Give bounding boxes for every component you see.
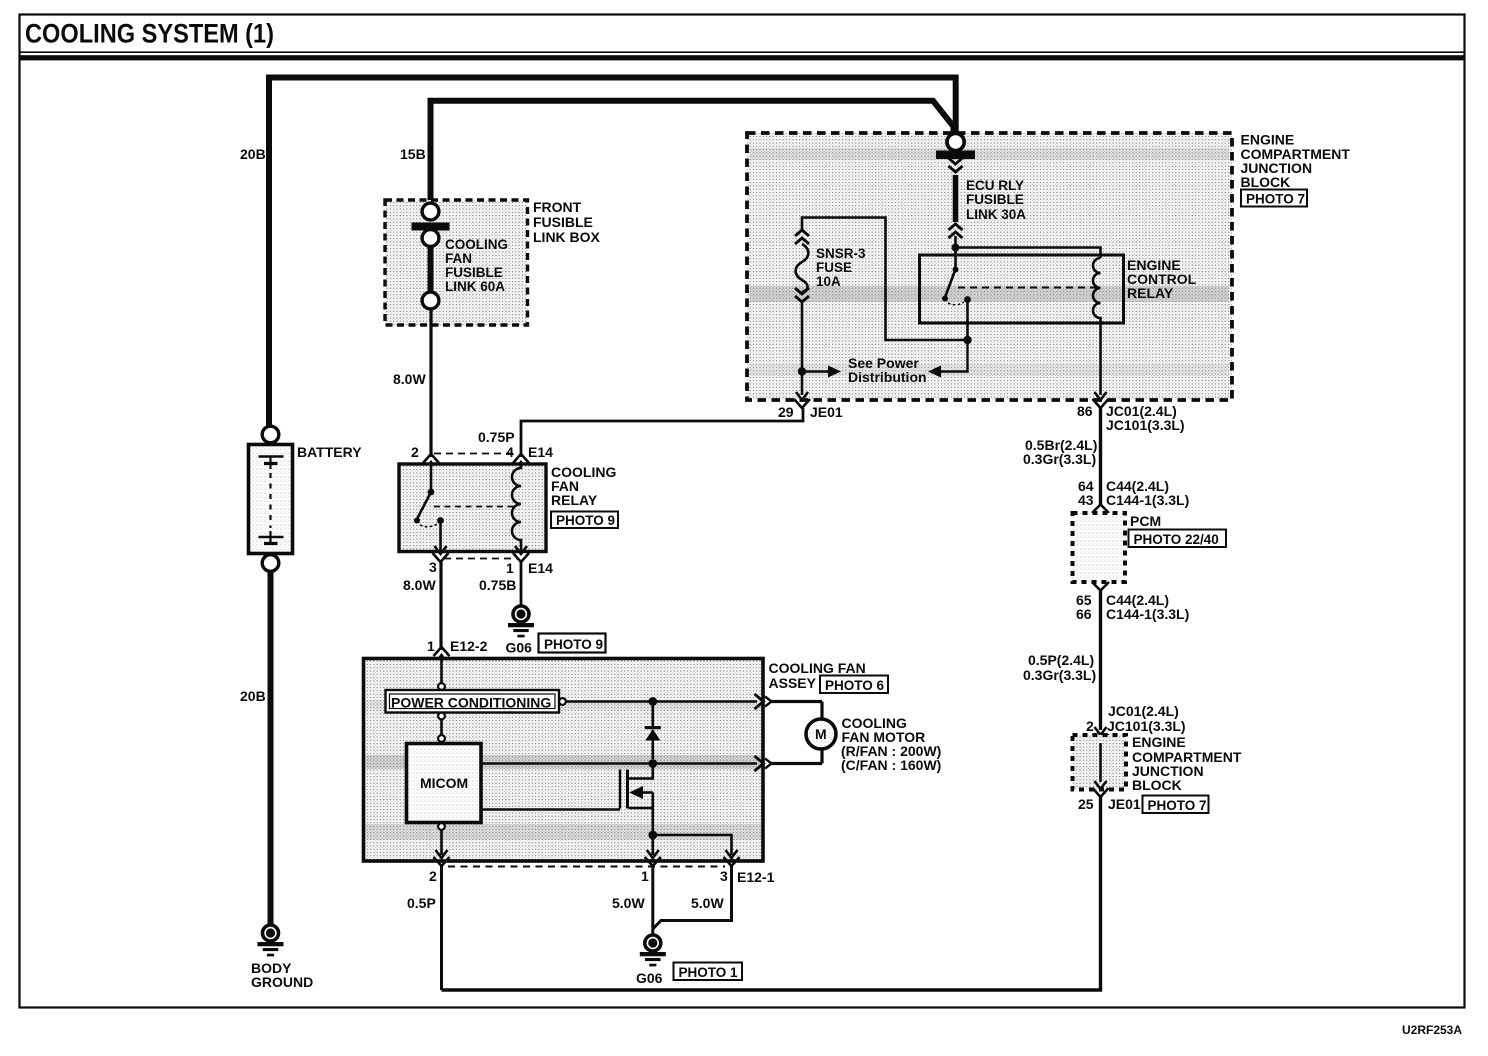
- wire 15B branch to front fusible link box: [431, 101, 954, 204]
- wire power conditioning to micom: [438, 713, 445, 742]
- wire micom to mosfet gate: [481, 808, 620, 811]
- wire JE01 pin 25 down and across bottom to fan assembly: [442, 795, 1101, 990]
- svg-text:PHOTO 6: PHOTO 6: [825, 678, 885, 693]
- svg-text:43: 43: [1078, 492, 1094, 508]
- svg-text:66: 66: [1076, 606, 1092, 622]
- svg-text:PHOTO 22/40: PHOTO 22/40: [1134, 532, 1219, 547]
- label 20B bottom: [240, 688, 266, 704]
- node junction dot at switch output: [963, 336, 971, 344]
- wire 8.0W relay pin 3 to connector E12-2: [439, 562, 442, 650]
- svg-text:2: 2: [411, 444, 419, 460]
- svg-text:0.75B: 0.75B: [479, 577, 516, 593]
- cooling fan motor M: [770, 702, 941, 774]
- svg-text:FRONT: FRONT: [533, 199, 582, 215]
- wire battery positive feed to junction block (thick top run): [269, 78, 956, 427]
- ecu rly fusible link 30A: [936, 151, 1026, 247]
- svg-text:JC101(3.3L): JC101(3.3L): [1106, 417, 1185, 433]
- photo 9 label box (ground): [539, 634, 606, 653]
- svg-text:ECU RLY: ECU RLY: [966, 178, 1024, 193]
- node junction dot on output rail: [648, 697, 657, 706]
- labels 0.5Br 0.3Gr: [1023, 437, 1097, 467]
- connector into junction block 2: [1093, 727, 1109, 743]
- wire 0.75B relay pin 1 to ground: [520, 562, 523, 606]
- svg-text:LINK BOX: LINK BOX: [533, 229, 601, 245]
- labels 0.5P 0.3Gr: [1023, 652, 1096, 683]
- wire node A to relay coil: [956, 248, 1101, 259]
- svg-text:E14: E14: [528, 560, 553, 576]
- svg-text:ASSEY: ASSEY: [769, 675, 817, 691]
- svg-text:3: 3: [720, 868, 728, 884]
- wire battery negative to body ground: [268, 573, 274, 925]
- engine control relay coil: [1093, 258, 1101, 323]
- svg-text:G06: G06: [506, 640, 533, 656]
- node junction dot lower rail: [648, 759, 657, 768]
- labels 65 66 C44 C144-1: [1076, 592, 1189, 622]
- svg-text:POWER CONDITIONING: POWER CONDITIONING: [391, 695, 551, 711]
- svg-text:(C/FAN : 160W): (C/FAN : 160W): [841, 757, 941, 773]
- node connector circle at junction block top: [947, 133, 964, 150]
- svg-text:FUSIBLE: FUSIBLE: [966, 192, 1024, 207]
- engine control relay box: [920, 255, 1197, 323]
- svg-text:PHOTO 1: PHOTO 1: [679, 965, 739, 980]
- svg-text:JE01: JE01: [810, 404, 843, 420]
- svg-text:3: 3: [429, 559, 437, 575]
- svg-text:JE01: JE01: [1108, 796, 1141, 812]
- svg-text:2: 2: [429, 868, 437, 884]
- svg-text:FUSIBLE: FUSIBLE: [533, 214, 593, 230]
- cooling fan assembly box: [364, 659, 866, 862]
- svg-text:15B: 15B: [400, 146, 426, 162]
- svg-text:PCM: PCM: [1130, 513, 1161, 529]
- svg-text:C144-1(3.3L): C144-1(3.3L): [1106, 492, 1189, 508]
- connector E12-2 pin 1: [427, 638, 488, 663]
- svg-text:0.5P(2.4L): 0.5P(2.4L): [1028, 652, 1094, 668]
- svg-text:FUSIBLE: FUSIBLE: [445, 265, 503, 280]
- ground G06 (relay): [506, 606, 535, 656]
- svg-text:2: 2: [1086, 718, 1094, 734]
- svg-text:BLOCK: BLOCK: [1132, 777, 1182, 793]
- wire power conditioning output rail: [559, 698, 757, 705]
- cooling fan relay coil: [512, 464, 521, 552]
- svg-text:BATTERY: BATTERY: [297, 444, 362, 460]
- svg-text:COOLING: COOLING: [445, 237, 508, 252]
- wire 8.0W fusible link to relay pin 2: [393, 308, 431, 457]
- see power distribution reference arrows: [802, 340, 968, 385]
- photo 9 label box (relay): [551, 512, 618, 529]
- svg-text:G06: G06: [636, 970, 663, 986]
- photo 7 label box (junction block top): [1241, 190, 1307, 207]
- svg-text:SNSR-3: SNSR-3: [816, 246, 866, 261]
- labels 64 43 C44 C144-1: [1078, 478, 1189, 508]
- connector E14 bottom pins 3 and 1: [403, 546, 553, 593]
- connector E12-1 pins 2 1 3: [429, 850, 775, 885]
- svg-text:0.75P: 0.75P: [478, 429, 515, 445]
- cooling fan relay box: [399, 464, 616, 552]
- PCM box: [1073, 513, 1162, 582]
- svg-text:29: 29: [778, 404, 794, 420]
- svg-text:BLOCK: BLOCK: [1241, 174, 1291, 190]
- connector chevron motor lower feed: [755, 756, 772, 771]
- wire E12-2 pin 1 into power conditioning: [438, 660, 445, 690]
- node junction dot on fuse wire: [798, 367, 806, 375]
- photo 6 label box: [820, 676, 888, 694]
- label 15B: [400, 146, 426, 162]
- photo 7 label box (junction block 2): [1143, 796, 1209, 814]
- svg-text:0.3Gr(3.3L): 0.3Gr(3.3L): [1023, 667, 1096, 683]
- wire mosfet source to E12-1 pins 1 and 3: [653, 835, 732, 855]
- svg-text:E12-1: E12-1: [737, 869, 775, 885]
- svg-text:10A: 10A: [816, 274, 841, 289]
- wire 0.75P relay pin 4 to JE01: [521, 408, 803, 457]
- wire micom to motor lower rail: [481, 762, 757, 765]
- svg-text:PHOTO 9: PHOTO 9: [544, 637, 603, 652]
- svg-text:ENGINE: ENGINE: [1132, 734, 1186, 750]
- wire 0.5P from E12-1 pin 2: [407, 864, 442, 990]
- svg-text:MICOM: MICOM: [420, 775, 468, 791]
- cooling fan relay switch: [414, 464, 516, 552]
- power conditioning block: [386, 690, 560, 713]
- wire 5.0W pin 1 to ground: [612, 864, 653, 934]
- fuse SNSR-3 10A: [795, 230, 866, 368]
- svg-text:LINK 60A: LINK 60A: [445, 279, 505, 294]
- svg-text:20B: 20B: [240, 146, 266, 162]
- svg-text:0.5P: 0.5P: [407, 895, 436, 911]
- wire JC01 pin 86 down to PCM: [1099, 406, 1102, 505]
- labels 86 JC01 JC101: [1077, 403, 1185, 433]
- diode D (flyback): [645, 702, 661, 760]
- svg-text:COOLING FAN: COOLING FAN: [769, 660, 866, 676]
- svg-text:1: 1: [506, 560, 514, 576]
- svg-text:8.0W: 8.0W: [403, 577, 436, 593]
- svg-text:PHOTO 7: PHOTO 7: [1148, 798, 1207, 813]
- svg-text:5.0W: 5.0W: [691, 895, 724, 911]
- wire engine control relay coil to JC01 pin 86: [1093, 323, 1109, 408]
- svg-text:8.0W: 8.0W: [393, 371, 426, 387]
- body ground: [251, 925, 313, 990]
- svg-text:U2RF253A: U2RF253A: [1402, 1023, 1462, 1037]
- node A junction dot below fusible link: [952, 244, 960, 252]
- front fusible link box: [385, 199, 601, 325]
- wire micom to E12-1 pin 2: [438, 823, 445, 855]
- svg-text:RELAY: RELAY: [551, 492, 598, 508]
- svg-text:M: M: [815, 726, 827, 742]
- label U2RF253A: [1402, 1023, 1462, 1037]
- engine compartment junction block 2: [1073, 734, 1242, 793]
- svg-text:FUSE: FUSE: [816, 260, 852, 275]
- connector E14 top pins 2 and 4: [411, 429, 553, 470]
- svg-text:E12-2: E12-2: [450, 638, 488, 654]
- connector JE01 pin 29: [778, 375, 843, 420]
- wire switch output to snsr-3 fuse: [802, 218, 968, 341]
- svg-text:JC101(3.3L): JC101(3.3L): [1107, 718, 1186, 734]
- svg-text:RELAY: RELAY: [1127, 285, 1174, 301]
- transistor Q (mosfet): [620, 765, 653, 833]
- fusible link COOLING FAN FUSIBLE LINK 60A: [412, 203, 509, 309]
- micom block: [407, 744, 482, 823]
- photo 22/40 label box: [1129, 530, 1227, 548]
- connector chevron motor upper feed: [755, 694, 772, 709]
- svg-text:LINK 30A: LINK 30A: [966, 207, 1026, 222]
- label 20B top: [240, 146, 266, 162]
- connector cup into PCM: [1092, 505, 1109, 514]
- svg-text:PHOTO 9: PHOTO 9: [556, 513, 615, 528]
- svg-text:4: 4: [506, 444, 514, 460]
- svg-text:1: 1: [427, 638, 435, 654]
- photo 1 label box: [674, 963, 743, 981]
- svg-text:0.3Gr(3.3L): 0.3Gr(3.3L): [1023, 451, 1096, 467]
- engine control relay switch: [942, 249, 1097, 339]
- labels 2 JC01 JC101: [1086, 703, 1186, 734]
- wire PCM to junction block 2: [1099, 591, 1102, 731]
- svg-text:GROUND: GROUND: [251, 974, 313, 990]
- svg-text:5.0W: 5.0W: [612, 895, 645, 911]
- svg-text:JC01(2.4L): JC01(2.4L): [1108, 703, 1179, 719]
- connector JE01 pin 25: [1078, 781, 1141, 812]
- node junction dot at mosfet source: [648, 831, 657, 840]
- connector cup out of PCM: [1092, 582, 1109, 591]
- engine compartment junction block (top): [747, 132, 1350, 401]
- battery: [249, 426, 363, 571]
- ground G06 (fan assembly): [636, 935, 666, 986]
- wire 5.0W pin 3 to ground: [653, 864, 732, 929]
- svg-text:COOLING SYSTEM (1): COOLING SYSTEM (1): [25, 19, 274, 49]
- svg-text:PHOTO 7: PHOTO 7: [1246, 192, 1305, 207]
- svg-text:Distribution: Distribution: [848, 369, 927, 385]
- title bar COOLING SYSTEM (1): [19, 19, 1465, 61]
- svg-text:86: 86: [1077, 403, 1093, 419]
- svg-text:20B: 20B: [240, 688, 266, 704]
- svg-text:1: 1: [641, 868, 649, 884]
- svg-text:E14: E14: [528, 444, 553, 460]
- svg-text:FAN: FAN: [445, 251, 472, 266]
- svg-text:25: 25: [1078, 796, 1094, 812]
- svg-text:C144-1(3.3L): C144-1(3.3L): [1106, 606, 1189, 622]
